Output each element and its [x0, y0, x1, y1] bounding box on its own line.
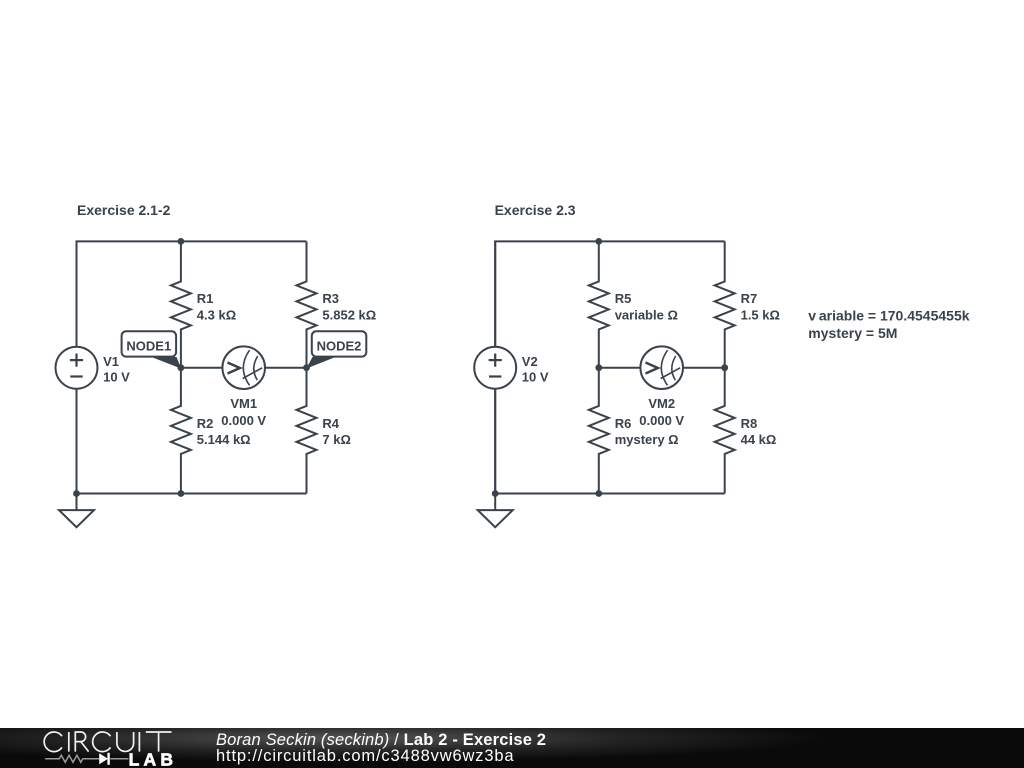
svg-text:v ariable = 170.4545455k: v ariable = 170.4545455k [808, 307, 969, 323]
svg-text:VM2: VM2 [648, 396, 675, 411]
svg-text:NODE1: NODE1 [126, 339, 171, 354]
svg-text:NODE2: NODE2 [317, 339, 362, 354]
svg-text:VM1: VM1 [230, 396, 257, 411]
svg-text:10 V: 10 V [522, 370, 549, 385]
svg-text:4.3 kΩ: 4.3 kΩ [197, 307, 236, 322]
svg-text:LAB: LAB [129, 749, 178, 768]
svg-text:10 V: 10 V [103, 370, 130, 385]
svg-text:44 kΩ: 44 kΩ [741, 432, 777, 447]
svg-text:Exercise 2.3: Exercise 2.3 [495, 202, 576, 218]
svg-text:5.144 kΩ: 5.144 kΩ [197, 432, 251, 447]
svg-text:variable Ω: variable Ω [615, 307, 678, 322]
svg-text:0.000 V: 0.000 V [639, 413, 684, 428]
svg-text:R1: R1 [197, 291, 214, 306]
svg-text:R5: R5 [615, 291, 632, 306]
svg-text:mystery = 5M: mystery = 5M [808, 325, 897, 341]
svg-text:R7: R7 [741, 291, 758, 306]
svg-text:7 kΩ: 7 kΩ [322, 432, 351, 447]
svg-text:mystery Ω: mystery Ω [615, 432, 679, 447]
svg-text:V1: V1 [103, 354, 119, 369]
svg-text:Exercise 2.1-2: Exercise 2.1-2 [77, 202, 171, 218]
svg-text:R2: R2 [197, 416, 214, 431]
svg-text:R8: R8 [741, 416, 758, 431]
svg-text:1.5 kΩ: 1.5 kΩ [741, 307, 780, 322]
svg-text:R3: R3 [322, 291, 339, 306]
svg-text:0.000 V: 0.000 V [221, 413, 266, 428]
svg-text:R4: R4 [322, 416, 339, 431]
svg-text:V2: V2 [522, 354, 538, 369]
svg-text:5.852 kΩ: 5.852 kΩ [322, 307, 376, 322]
svg-text:R6: R6 [615, 416, 632, 431]
